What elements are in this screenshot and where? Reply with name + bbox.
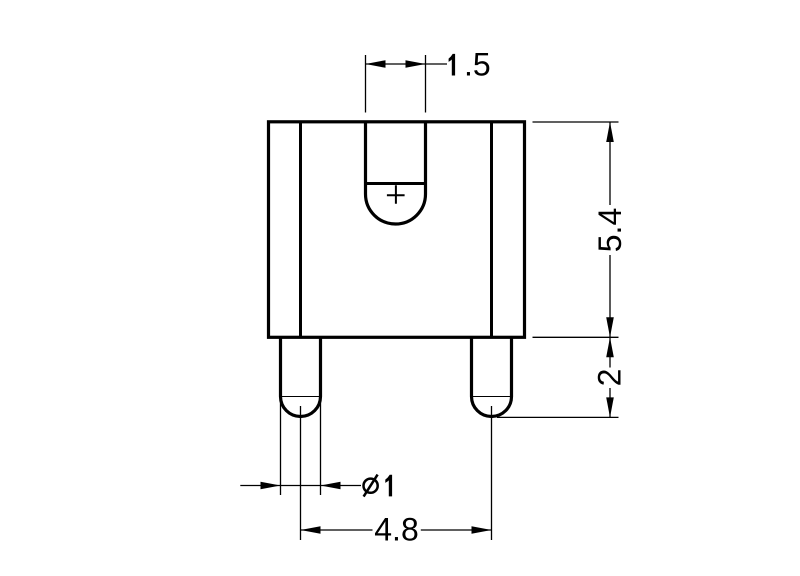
arrowhead 4.8 right — [472, 526, 492, 534]
arrowhead o1 right — [321, 482, 341, 490]
pin left — [281, 337, 321, 416]
arrowhead o1 left — [261, 482, 281, 490]
seam line left — [299, 122, 302, 338]
body outline — [269, 122, 525, 337]
dimension text o1 digit — [385, 475, 392, 497]
extension line notch left — [365, 55, 367, 113]
dimension line 2 lower segment — [609, 388, 611, 417]
notch shelf line — [366, 182, 426, 185]
centerline pin right — [491, 406, 493, 540]
dimension line o1 right leader — [321, 485, 362, 487]
svg-text:.5: .5 — [464, 47, 491, 83]
extension line notch right — [425, 55, 427, 113]
extension line body top — [533, 121, 619, 123]
extension line pin right edge — [320, 398, 322, 495]
svg-text:2: 2 — [592, 369, 628, 387]
dimension line 2 upper segment — [609, 337, 611, 367]
pin left tangent line — [281, 396, 321, 398]
centerline pin left — [300, 406, 302, 540]
dimension line 5.4 lower segment — [609, 255, 611, 337]
pin right — [472, 337, 512, 416]
diameter symbol circle — [364, 479, 378, 493]
arrowhead 1.5 right — [406, 60, 426, 68]
arrowhead 2 bottom — [606, 397, 614, 417]
dimension line 4.8 left segment — [301, 529, 373, 531]
dimension text 1.5 — [449, 54, 456, 76]
arrowhead 1.5 left — [366, 60, 386, 68]
notch outline — [366, 122, 426, 225]
diameter symbol slash — [364, 475, 378, 497]
dimension line 1.5 — [366, 63, 448, 65]
svg-text:4.8: 4.8 — [374, 512, 418, 548]
extension line body bottom — [533, 336, 619, 338]
arrowhead 5.4 bottom — [606, 317, 614, 337]
arrowhead 2 top — [606, 337, 614, 357]
arrowhead 4.8 left — [301, 526, 321, 534]
arrowhead 5.4 top — [606, 122, 614, 142]
seam line right — [490, 122, 493, 338]
polarity mark + — [387, 185, 405, 204]
extension line pin left edge — [280, 398, 282, 495]
extension line pin tip — [497, 416, 619, 418]
dimension line 4.8 right segment — [421, 529, 492, 531]
dimension line 5.4 upper segment — [609, 122, 611, 205]
svg-text:5.4: 5.4 — [592, 208, 628, 252]
dimension line o1 left leader — [240, 485, 320, 487]
pin right tangent line — [472, 396, 512, 398]
